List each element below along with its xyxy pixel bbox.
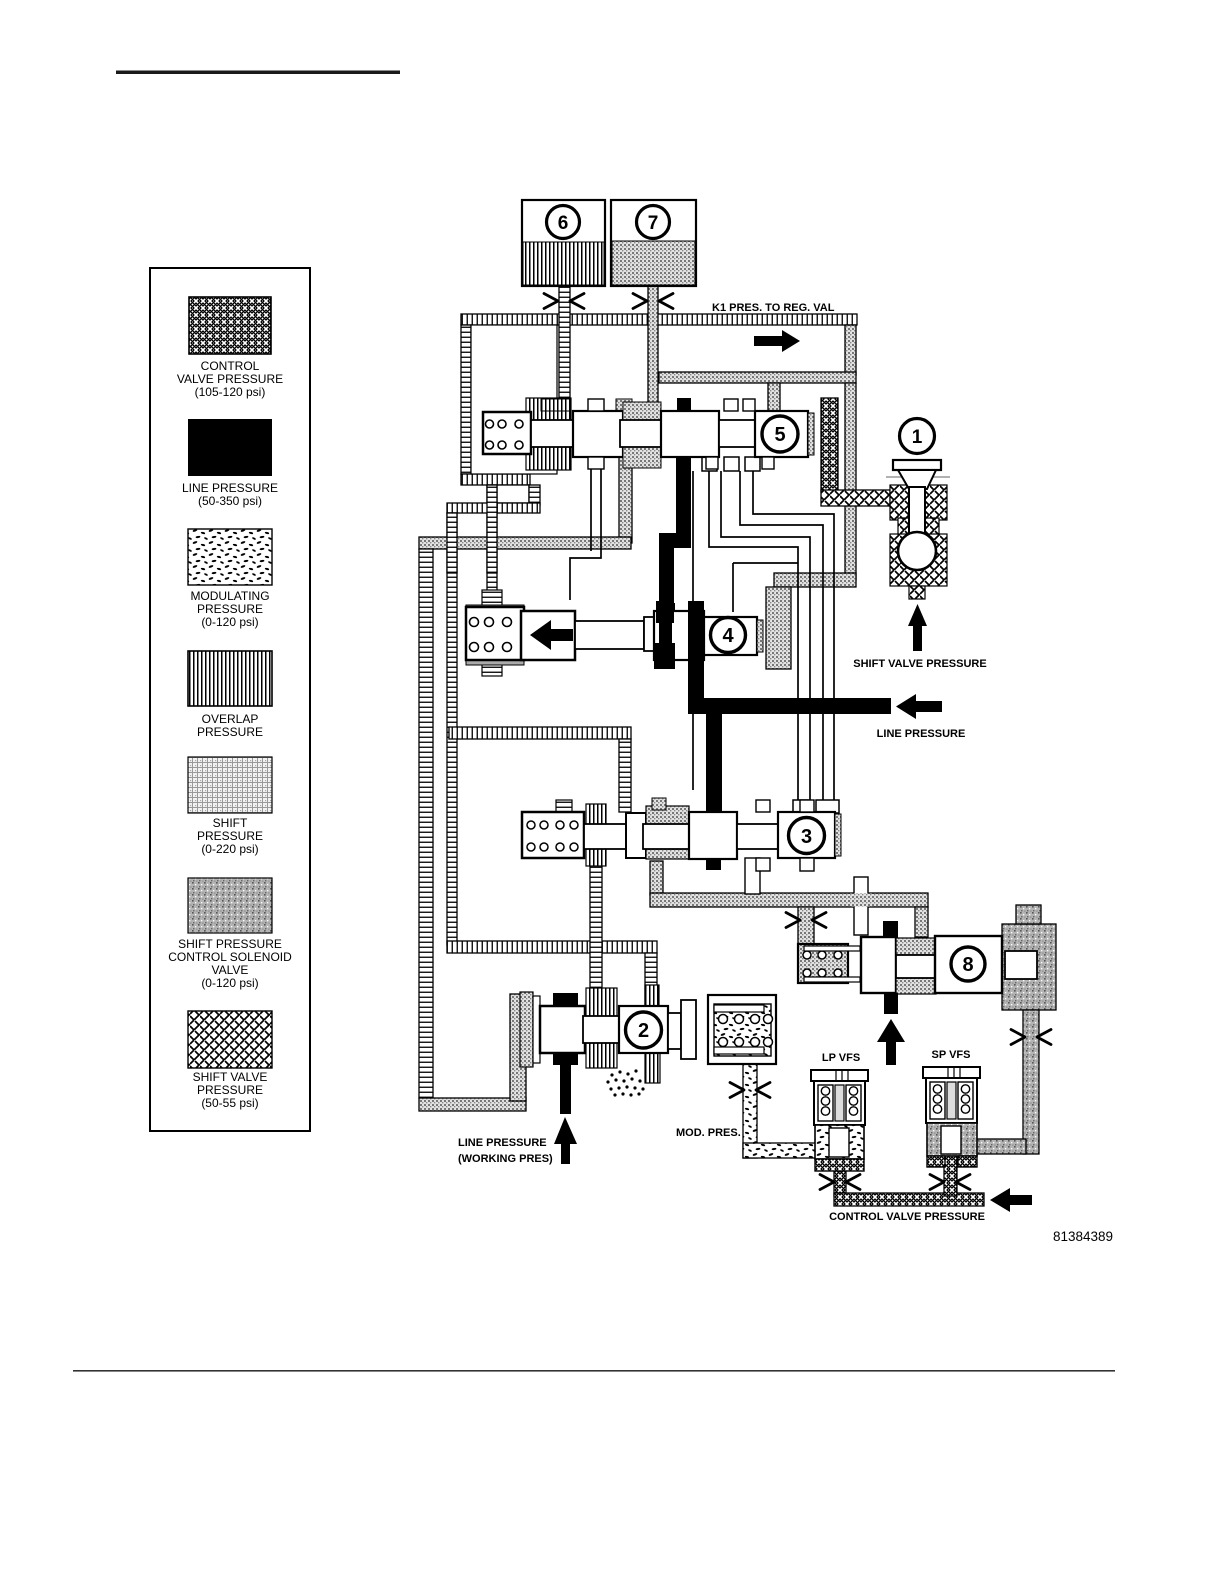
svg-text:LP VFS: LP VFS	[822, 1052, 860, 1064]
svg-text:PRESSURE: PRESSURE	[197, 829, 263, 843]
svg-text:(50-350 psi): (50-350 psi)	[198, 494, 262, 508]
svg-text:SP VFS: SP VFS	[932, 1049, 971, 1061]
svg-text:CONTROL VALVE PRESSURE: CONTROL VALVE PRESSURE	[829, 1211, 985, 1223]
svg-text:SHIFT PRESSURE: SHIFT PRESSURE	[178, 937, 282, 951]
svg-text:(0-220 psi): (0-220 psi)	[201, 842, 258, 856]
svg-text:SHIFT VALVE PRESSURE: SHIFT VALVE PRESSURE	[853, 658, 986, 670]
svg-text:LINE PRESSURE: LINE PRESSURE	[182, 481, 278, 495]
svg-text:(105-120 psi): (105-120 psi)	[195, 385, 266, 399]
svg-text:2: 2	[638, 1020, 649, 1042]
svg-text:VALVE PRESSURE: VALVE PRESSURE	[177, 372, 283, 386]
svg-text:PRESSURE: PRESSURE	[197, 725, 263, 739]
svg-text:5: 5	[774, 424, 785, 446]
svg-text:1: 1	[912, 427, 923, 448]
svg-text:(WORKING PRES): (WORKING PRES)	[458, 1153, 553, 1165]
svg-text:MOD. PRES.: MOD. PRES.	[676, 1127, 741, 1139]
svg-text:PRESSURE: PRESSURE	[197, 602, 263, 616]
svg-text:PRESSURE: PRESSURE	[197, 1083, 263, 1097]
svg-text:(0-120 psi): (0-120 psi)	[201, 976, 258, 990]
svg-text:SHIFT VALVE: SHIFT VALVE	[193, 1070, 268, 1084]
svg-text:LINE PRESSURE: LINE PRESSURE	[458, 1137, 547, 1149]
svg-text:6: 6	[558, 213, 569, 234]
svg-text:LINE PRESSURE: LINE PRESSURE	[877, 728, 966, 740]
svg-text:CONTROL SOLENOID: CONTROL SOLENOID	[168, 950, 292, 964]
svg-text:4: 4	[722, 625, 734, 647]
svg-text:81384389: 81384389	[1053, 1229, 1113, 1244]
svg-text:SHIFT: SHIFT	[213, 816, 248, 830]
svg-text:MODULATING: MODULATING	[190, 589, 269, 603]
svg-text:3: 3	[801, 826, 812, 848]
svg-text:7: 7	[648, 213, 659, 234]
svg-text:(0-120 psi): (0-120 psi)	[201, 615, 258, 629]
svg-text:K1 PRES. TO REG. VAL: K1 PRES. TO REG. VAL	[712, 302, 835, 314]
svg-text:VALVE: VALVE	[212, 963, 249, 977]
svg-text:CONTROL: CONTROL	[201, 359, 260, 373]
svg-text:8: 8	[962, 954, 973, 976]
svg-text:(50-55 psi): (50-55 psi)	[201, 1096, 258, 1110]
svg-text:OVERLAP: OVERLAP	[202, 712, 259, 726]
